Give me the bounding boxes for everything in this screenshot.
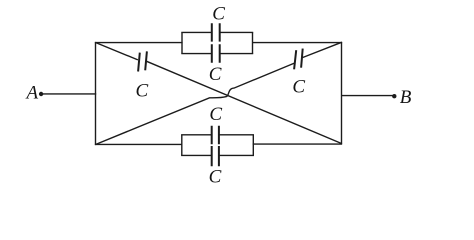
wire top-left horizontal bbox=[95, 42, 183, 44]
diagonal wire from capacitor to top-right corner bbox=[302, 42, 342, 57]
bottom parallel block: upper branch wires bbox=[181, 134, 254, 136]
svg-text:C: C bbox=[212, 4, 225, 25]
svg-text:A: A bbox=[24, 83, 38, 104]
svg-text:C: C bbox=[209, 64, 222, 85]
svg-text:C: C bbox=[136, 81, 149, 102]
wire top-right horizontal bbox=[252, 42, 342, 44]
wire bottom-right horizontal bbox=[253, 143, 342, 145]
capacitor C (upper branch of top block) plates bbox=[212, 23, 220, 41]
diagonal wire from bottom-left corner with crossover hop to right capacitor bbox=[96, 63, 295, 144]
bottom parallel block: right edge wire bbox=[252, 135, 254, 156]
bottom parallel block: left edge wire bbox=[181, 135, 183, 156]
bottom parallel block: lower branch wires bbox=[181, 154, 254, 156]
diagonal wire from top-left corner to capacitor bbox=[96, 43, 138, 60]
wire from A to left node bbox=[43, 93, 96, 95]
top parallel block: lower branch wires bbox=[181, 53, 253, 55]
capacitor C (right diagonal) plates bbox=[294, 49, 303, 70]
wire bottom-left horizontal bbox=[95, 143, 182, 145]
terminal B dot bbox=[392, 94, 396, 98]
capacitor C (lower branch of top block) plates bbox=[212, 44, 220, 62]
wire right vertical (right side of bridge) bbox=[341, 42, 343, 144]
svg-text:C: C bbox=[209, 166, 222, 187]
wire left vertical (left side of bridge) bbox=[95, 42, 97, 145]
wire from right node to B bbox=[342, 95, 393, 97]
capacitor C (left diagonal) plates bbox=[138, 51, 147, 71]
top parallel block: right edge wire bbox=[252, 32, 254, 53]
capacitor C (upper branch of bottom block) plates bbox=[212, 126, 219, 145]
diagonal wire from capacitor to bottom-right corner bbox=[147, 61, 342, 143]
terminal A dot bbox=[39, 92, 43, 96]
capacitor C (lower branch of bottom block) plates bbox=[212, 146, 219, 166]
svg-text:C: C bbox=[209, 104, 222, 125]
top parallel block: left edge wire bbox=[181, 32, 183, 53]
top parallel block: upper branch wires bbox=[181, 31, 253, 33]
svg-text:C: C bbox=[292, 77, 305, 98]
svg-text:B: B bbox=[400, 87, 412, 108]
